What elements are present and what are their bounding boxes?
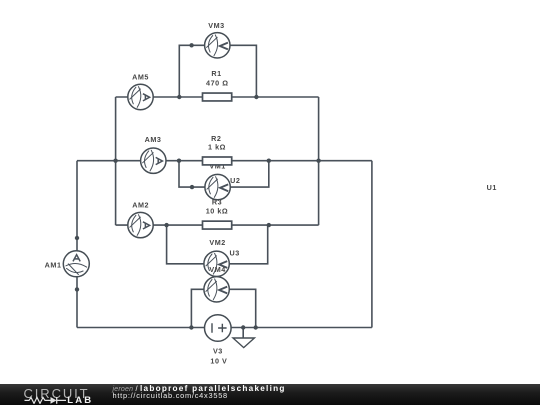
voltmeter VM3: [205, 33, 230, 58]
wire row2 AM3-R2: [77, 160, 372, 162]
resistor R3: [203, 221, 232, 229]
node row2 rail junction: [316, 159, 320, 163]
label VM1 (hidden behind R2): [209, 161, 225, 170]
svg-text:AM3: AM3: [145, 135, 162, 144]
node row3 right junction: [267, 223, 271, 227]
svg-text:U1: U1: [487, 183, 497, 192]
node row2 right junction: [267, 159, 271, 163]
footer author line: [113, 385, 286, 394]
svg-text:VM2: VM2: [209, 238, 225, 247]
svg-text:V3: V3: [213, 347, 223, 356]
logo squiggle: [24, 395, 68, 404]
svg-text:AM5: AM5: [132, 73, 149, 82]
node bottom VM4 left: [189, 325, 193, 329]
node bottom ground: [241, 325, 245, 329]
svg-text:VM3: VM3: [208, 21, 224, 30]
wire row3 AM2-R3: [116, 224, 319, 226]
wire U3 left drop: [167, 225, 230, 264]
ammeter AM5: [128, 84, 153, 109]
wire VM3 right riser: [230, 45, 256, 97]
wire ground stem: [242, 328, 244, 338]
ammeter AM1 (vertical): [63, 251, 89, 277]
node row2 x115: [113, 159, 117, 163]
svg-text:VM4: VM4: [209, 265, 225, 274]
wire U3 right riser: [230, 225, 268, 264]
wire left rail x77: [76, 161, 78, 328]
wire U2 left drop: [179, 161, 231, 187]
svg-text:R3: R3: [212, 198, 222, 207]
wire VM3 left riser: [179, 45, 230, 97]
wire VM4 right drop: [230, 289, 256, 327]
node AM1 bottom terminal: [75, 287, 79, 291]
voltmeter U2: [205, 174, 230, 199]
node row1 left junction: [177, 95, 181, 99]
wire bottom: [77, 327, 372, 329]
node row2 left junction: [177, 159, 181, 163]
node AM1 top terminal: [75, 236, 79, 240]
wire VM4 left drop: [191, 289, 203, 327]
svg-text:U3: U3: [230, 248, 240, 257]
voltmeter U3: [204, 251, 229, 276]
footer url line: [113, 392, 228, 399]
svg-text:AM2: AM2: [132, 201, 149, 210]
logo CIRCUIT: [24, 386, 90, 401]
resistor R2: [203, 157, 232, 165]
wire row1 AM5-R1: [116, 96, 319, 98]
ammeter AM3: [141, 148, 166, 173]
svg-text:10 V: 10 V: [210, 357, 227, 366]
ground: [233, 338, 254, 348]
wire rail x318: [318, 97, 320, 225]
footer bar: [0, 384, 540, 405]
svg-text:R2: R2: [211, 134, 221, 143]
wire U2 right riser: [231, 161, 269, 187]
wire AM5 left riser: [115, 97, 117, 225]
svg-text:10 kΩ: 10 kΩ: [206, 206, 229, 215]
ammeter AM2: [128, 212, 153, 237]
voltage source V3: [205, 315, 232, 342]
svg-text:1 kΩ: 1 kΩ: [208, 143, 226, 152]
voltmeter VM4: [204, 277, 229, 302]
svg-text:470 Ω: 470 Ω: [206, 79, 229, 88]
node U2 terminal: [190, 185, 194, 189]
node bottom VM4 right: [254, 325, 258, 329]
svg-text:R1: R1: [211, 69, 221, 78]
node row1 right junction: [254, 95, 258, 99]
node VM3 terminal: [189, 43, 193, 47]
svg-text:AM1: AM1: [45, 260, 62, 269]
node row3 left junction: [164, 223, 168, 227]
svg-text:U2: U2: [230, 176, 240, 185]
logo LAB: [67, 395, 93, 405]
wire rail right x372: [371, 161, 373, 328]
resistor R1: [203, 93, 232, 101]
